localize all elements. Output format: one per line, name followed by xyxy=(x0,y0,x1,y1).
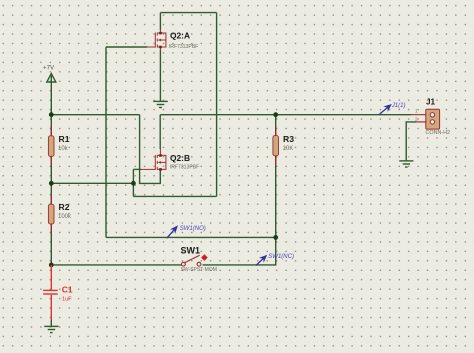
power symbol +7V xyxy=(47,74,56,83)
wire bottom mid xyxy=(106,236,276,238)
wire Q2:A source to ground xyxy=(159,50,161,101)
svg-text:J1(1): J1(1) xyxy=(391,103,406,109)
svg-text:1: 1 xyxy=(415,109,418,115)
svg-text:SW1: SW1 xyxy=(181,245,201,255)
svg-text:SW1(NO): SW1(NO) xyxy=(180,226,206,232)
wire J1 pin2 xyxy=(406,122,416,161)
wire Q2:B node vertical xyxy=(132,169,134,196)
junction node C1 xyxy=(49,263,54,268)
ground below J1 xyxy=(399,161,413,167)
resistor R2 xyxy=(48,195,54,234)
svg-text:R1: R1 xyxy=(59,134,70,144)
wire SW1 left xyxy=(51,264,181,266)
junction node A (+7V/R1) xyxy=(49,112,54,117)
junction node R3 top xyxy=(273,112,278,117)
wire right riser x=216.6 xyxy=(216,13,218,197)
wire rail right (Q2:B drain to J1) xyxy=(160,114,411,116)
svg-text:CONN-H2: CONN-H2 xyxy=(426,130,451,136)
svg-text:IRF7313PBF: IRF7313PBF xyxy=(170,164,199,170)
junction node Q2:B xyxy=(131,181,136,186)
connector J1 xyxy=(411,109,440,129)
svg-text:R2: R2 xyxy=(59,202,70,212)
svg-text:J1: J1 xyxy=(426,98,436,107)
probe arrow SW1(NO) xyxy=(167,226,177,238)
svg-text:R3: R3 xyxy=(283,134,294,144)
svg-text:10K: 10K xyxy=(283,146,294,152)
wire gate column x=106 xyxy=(105,47,107,237)
wire top rail xyxy=(160,12,216,14)
wire +7V rail left xyxy=(51,114,139,116)
svg-text:IRF7313PBF: IRF7313PBF xyxy=(169,44,198,50)
svg-text:SW1(NC): SW1(NC) xyxy=(268,254,294,260)
switch SW1 actuator dot xyxy=(201,254,208,261)
junction node SW net xyxy=(273,235,278,240)
svg-text:SW-SPST-MOM: SW-SPST-MOM xyxy=(181,267,217,273)
svg-text:Q2:B: Q2:B xyxy=(170,153,190,163)
svg-text:Q2:A: Q2:A xyxy=(170,31,190,41)
wire +7V descender to Q2:B source xyxy=(140,115,161,184)
wire divider to Q2:B node xyxy=(51,182,134,184)
switch SW1 xyxy=(182,255,201,266)
ground below C1 xyxy=(44,320,58,333)
svg-text:C1: C1 xyxy=(62,285,73,295)
svg-text:2: 2 xyxy=(415,116,418,122)
wire Q2:A gate xyxy=(106,46,147,48)
wire Q2:B gate link xyxy=(133,168,141,170)
probe arrow J1(1) xyxy=(380,105,392,115)
probe arrow SW1(NC) xyxy=(256,255,267,265)
wire Q2:B drain xyxy=(159,115,161,149)
svg-text:+7V: +7V xyxy=(43,65,55,72)
resistor R3 xyxy=(273,127,279,166)
wire left column xyxy=(50,115,52,265)
capacitor C1 xyxy=(43,265,58,320)
transistor Q2:B xyxy=(141,148,166,171)
svg-text:1uF: 1uF xyxy=(62,296,72,302)
junction node divider xyxy=(49,181,54,186)
wire Q2:A drain xyxy=(159,13,161,30)
ground below Q2:A xyxy=(153,101,168,107)
wire node to Q2:A drain net xyxy=(133,195,216,197)
svg-text:100k: 100k xyxy=(58,214,72,220)
wire +7V stem xyxy=(50,82,52,115)
transistor Q2:A xyxy=(147,29,166,50)
wire SW1 right xyxy=(203,264,277,266)
wire R3 column xyxy=(275,115,277,266)
resistor R1 xyxy=(48,127,54,166)
svg-text:10k: 10k xyxy=(58,146,69,152)
